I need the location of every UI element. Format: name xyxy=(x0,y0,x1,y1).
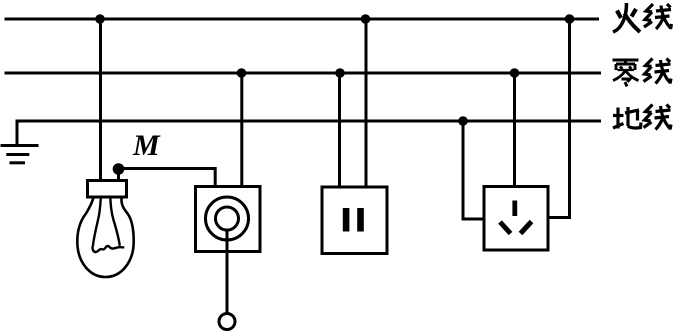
label 地线 char 线 xyxy=(644,105,672,130)
wire from L2 down to switch box xyxy=(240,73,243,187)
wire L3 earth line 地线 xyxy=(17,121,601,144)
node on L2 for 2-pin socket xyxy=(335,68,345,78)
two-pin socket box xyxy=(322,187,387,254)
node on L3 for 3-pin socket xyxy=(458,116,468,126)
two-pin socket left slot xyxy=(343,208,350,232)
three-pin socket left pin xyxy=(500,222,511,234)
label 火线 (live wire) char 火 xyxy=(613,3,640,32)
two-pin socket right slot xyxy=(357,208,364,232)
pull switch outer circle xyxy=(206,197,249,240)
wire from L1 down to 2-pin socket xyxy=(365,19,368,187)
label 火线 char 线 xyxy=(644,4,672,29)
lamp bulb cap xyxy=(88,181,127,198)
pull switch inner circle xyxy=(216,207,239,230)
lamp filament support left xyxy=(93,198,101,247)
node on L1 for lamp xyxy=(95,14,105,24)
lamp glass envelope xyxy=(77,198,133,278)
wire L1 live line 火线 xyxy=(5,18,600,21)
label 零线 char 线 xyxy=(644,59,672,84)
wire from L1 down to lamp cap xyxy=(99,19,102,181)
label 零线 (neutral wire) char 零 xyxy=(613,60,639,87)
lamp filament support right xyxy=(110,198,120,246)
wire from lamp node to switch box xyxy=(119,169,216,188)
wire from L2 down to 3-pin socket top xyxy=(513,73,516,187)
pull switch cord xyxy=(226,230,229,314)
three-pin socket box xyxy=(484,187,548,251)
node at lamp cap (switch wire tap) xyxy=(113,163,125,175)
three-pin socket earth pin xyxy=(512,201,517,217)
wire L2 neutral line 零线 xyxy=(5,72,602,75)
three-pin socket right pin xyxy=(521,222,532,234)
pull switch box xyxy=(196,187,261,252)
svg-text:M: M xyxy=(132,129,161,162)
node on L2 for 3-pin socket xyxy=(510,68,520,78)
label 地线 (earth wire) char 地 xyxy=(613,107,641,129)
lamp filament wavy line xyxy=(92,246,124,252)
node on L2 for switch xyxy=(237,68,247,78)
node on L1 for 3-pin socket xyxy=(565,14,575,24)
wire from L1 down and left to 3-pin socket right side xyxy=(548,19,570,218)
pull switch cord ring xyxy=(219,314,235,330)
wire from L3 down and right to 3-pin socket left side xyxy=(463,121,484,219)
node on L1 for 2-pin socket xyxy=(361,14,371,24)
wire stub node to lamp cap xyxy=(117,169,120,181)
ground symbol xyxy=(1,146,39,163)
wire from L2 down to 2-pin socket xyxy=(338,73,341,187)
